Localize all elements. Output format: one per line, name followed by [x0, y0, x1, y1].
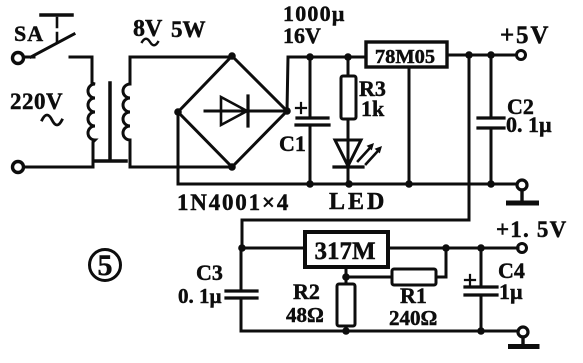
- wire bridge positive up to +5V rail: [287, 57, 366, 111]
- label R3: [359, 76, 386, 101]
- LED arrow 1: [358, 143, 374, 161]
- resistor R2 bottom lead: [345, 326, 348, 331]
- node LED cathode on rail: [345, 180, 353, 188]
- svg-text:R2: R2: [293, 279, 320, 304]
- LED triangle: [335, 140, 361, 166]
- label 317M: [314, 238, 375, 265]
- wire adj to R1: [346, 276, 392, 279]
- label C1: [279, 131, 306, 156]
- label 1000u: [283, 1, 346, 26]
- node adj junction: [342, 273, 350, 281]
- svg-text:16V: 16V: [283, 23, 321, 48]
- svg-text:1µ: 1µ: [499, 279, 523, 304]
- wire switch to transformer primary: [70, 56, 92, 59]
- switch SA actuator bar: [41, 13, 72, 17]
- switch SA terminal (top): [13, 53, 24, 64]
- node C1 bottom: [306, 180, 314, 188]
- capacitor C4 top lead: [480, 248, 483, 286]
- svg-text:5W: 5W: [171, 17, 206, 42]
- label 48ohm: [286, 303, 324, 327]
- wire 78M05 output to +5V terminal: [447, 54, 516, 57]
- node C4 bottom: [477, 327, 485, 335]
- node 78M05 ground on rail: [405, 180, 413, 188]
- svg-text:8V: 8V: [133, 16, 163, 42]
- svg-text:1k: 1k: [361, 96, 385, 121]
- wire bottom terminal to primary: [24, 166, 93, 169]
- label +5V: [500, 22, 550, 49]
- label 78M05: [375, 46, 435, 68]
- capacitor C3 bottom lead: [240, 298, 243, 331]
- svg-text:SA: SA: [14, 21, 44, 46]
- transformer T1 primary winding: [88, 57, 95, 167]
- resistor R1 body: [392, 269, 436, 285]
- LED cathode bar: [334, 165, 363, 168]
- wire secondary top to bridge: [130, 56, 232, 59]
- figure number circled 5: [90, 250, 121, 281]
- label C2: [507, 94, 534, 119]
- label 16V: [283, 23, 321, 48]
- label C4: [498, 258, 525, 283]
- capacitor C1 positive lead: [309, 57, 312, 116]
- svg-text:317M: 317M: [314, 238, 375, 265]
- wire secondary bottom to bridge: [130, 166, 232, 169]
- resistor R3 top lead: [347, 57, 350, 76]
- svg-text:R1: R1: [400, 283, 427, 308]
- tilde under 8V: [142, 39, 158, 46]
- node R2 bottom: [342, 327, 350, 335]
- svg-text:0. 1µ: 0. 1µ: [506, 112, 552, 137]
- label +1.5V: [496, 217, 567, 242]
- ground symbol (top rail): [509, 180, 537, 203]
- node +5V feed: [465, 51, 473, 59]
- svg-text:C1: C1: [279, 131, 306, 156]
- label 0.1u (C3): [178, 284, 222, 308]
- node C2 top: [487, 51, 495, 59]
- label R2: [293, 279, 320, 304]
- wire R1 to output rail: [436, 248, 446, 277]
- resistor R2 body: [337, 284, 355, 326]
- wire bottom ground rail: [241, 330, 518, 333]
- wire 317M output rail: [388, 247, 518, 250]
- bridge diode lead: [205, 110, 285, 113]
- svg-text:+5V: +5V: [500, 22, 550, 49]
- bridge rectifier diamond: [178, 56, 287, 167]
- capacitor C3 plates: [226, 291, 257, 298]
- bridge diode triangle: [221, 97, 247, 125]
- capacitor C2 top lead: [490, 55, 493, 117]
- label 1u (C4): [499, 279, 523, 304]
- label 0.1u (C2): [506, 112, 552, 137]
- wire top ground rail: [178, 183, 517, 186]
- node R1 top: [442, 244, 450, 252]
- node C2 bottom: [487, 180, 495, 188]
- ground symbol (bottom rail): [511, 327, 538, 347]
- tilde under 220V: [42, 115, 62, 125]
- capacitor C3 top lead: [240, 248, 243, 291]
- node bridge left vertex: [174, 108, 182, 116]
- terminal +5V: [517, 51, 526, 60]
- node bridge right vertex: [283, 107, 291, 115]
- svg-text:C3: C3: [196, 260, 223, 285]
- terminal +1.5V: [518, 244, 527, 253]
- transformer T1 core: [96, 83, 126, 161]
- svg-text:LED: LED: [329, 189, 387, 215]
- node C1 top: [306, 53, 314, 61]
- node bridge top vertex: [228, 52, 236, 60]
- wire bridge negative to ground rail: [177, 112, 180, 184]
- capacitor C1 plus sign: [296, 103, 306, 113]
- node C4 top: [477, 244, 485, 252]
- svg-text:1N4001×4: 1N4001×4: [177, 190, 290, 215]
- label 220V: [10, 89, 63, 114]
- resistor R3 body: [341, 76, 356, 119]
- node R3 top: [344, 53, 352, 61]
- transformer T1 secondary winding: [123, 57, 130, 167]
- svg-text:0. 1µ: 0. 1µ: [178, 284, 222, 308]
- label LED: [329, 189, 387, 215]
- node bridge bottom vertex: [228, 163, 236, 171]
- capacitor C1 negative lead: [309, 126, 312, 184]
- wire 78M05 ground pin: [408, 67, 411, 184]
- capacitor C4 bottom lead: [480, 296, 483, 331]
- svg-text:5: 5: [98, 249, 113, 282]
- resistor R3 bottom lead / LED anode lead: [347, 119, 350, 184]
- label 1k: [361, 96, 385, 121]
- label 8V: [133, 16, 163, 42]
- label C3: [196, 260, 223, 285]
- capacitor C2 bottom lead: [490, 129, 493, 184]
- label R1: [400, 283, 427, 308]
- wire input rail to 317M: [242, 247, 305, 250]
- capacitor C4 plus sign: [465, 275, 475, 285]
- svg-text:48Ω: 48Ω: [286, 303, 324, 327]
- regulator U1 78M05 box: [366, 42, 447, 67]
- capacitor C1 plates: [296, 118, 329, 125]
- capacitor C2 plates: [478, 118, 504, 128]
- regulator U2 317M box: [305, 232, 388, 267]
- node 317M input / C3 top: [238, 244, 246, 252]
- switch SA blade: [24, 34, 74, 57]
- capacitor C4 plates: [465, 287, 497, 295]
- svg-text:+1. 5V: +1. 5V: [496, 217, 567, 242]
- wire +5V down to 317M input: [242, 55, 469, 248]
- label 240ohm: [389, 306, 437, 330]
- label SA: [14, 21, 44, 46]
- label 5W: [171, 17, 206, 42]
- label 1N4001x4: [177, 190, 290, 215]
- LED arrow 2: [366, 146, 382, 164]
- svg-text:78M05: 78M05: [375, 46, 435, 68]
- bridge diode cathode bar: [246, 96, 249, 126]
- switch SA actuator dashed link: [56, 18, 59, 42]
- switch SA terminal (bottom): [13, 162, 24, 173]
- svg-text:220V: 220V: [10, 89, 63, 114]
- wire 317M adj pin: [345, 267, 348, 284]
- svg-text:240Ω: 240Ω: [389, 306, 437, 330]
